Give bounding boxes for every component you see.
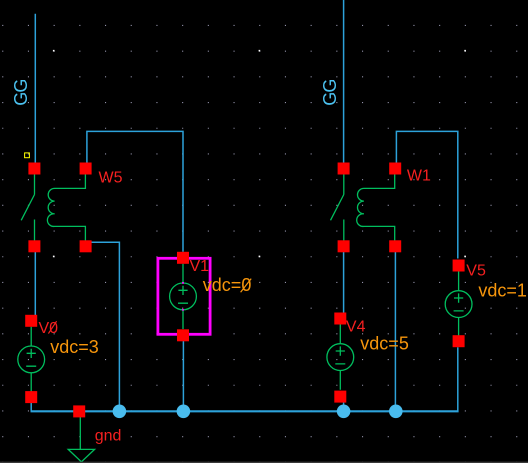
svg-text:V5: V5	[466, 262, 486, 279]
svg-text:V1: V1	[190, 258, 210, 275]
svg-text:W5: W5	[99, 169, 123, 186]
svg-text:vdc=3: vdc=3	[50, 337, 99, 357]
svg-text:GG: GG	[11, 79, 31, 105]
svg-text:GG: GG	[320, 79, 340, 105]
svg-text:vdc=0: vdc=0	[203, 275, 252, 295]
svg-text:W1: W1	[407, 168, 431, 185]
svg-text:vdc=1: vdc=1	[478, 281, 527, 301]
svg-text:vdc=5: vdc=5	[360, 334, 409, 354]
svg-text:gnd: gnd	[95, 427, 122, 444]
